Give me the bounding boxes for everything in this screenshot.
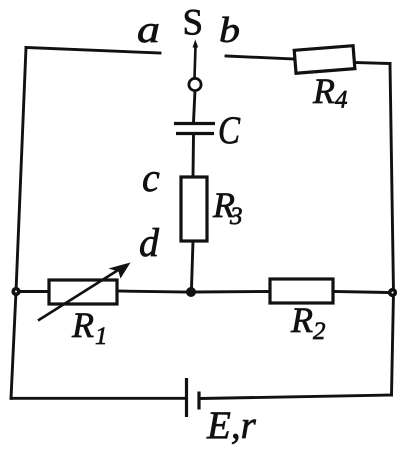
wire R1 to junction bbox=[117, 291, 187, 292]
svg-text:E,r: E,r bbox=[206, 404, 257, 447]
wire left node to R1 bbox=[20, 290, 49, 293]
wire junction to R2 bbox=[195, 290, 270, 293]
svg-text:S: S bbox=[183, 3, 204, 44]
wire a (top-left horizontal) bbox=[26, 48, 160, 54]
node (left terminal) bbox=[11, 287, 20, 296]
svg-text:c: c bbox=[142, 155, 160, 200]
wire bottom-left bbox=[11, 397, 184, 400]
resistor R4 bbox=[294, 46, 355, 74]
svg-text:R4: R4 bbox=[312, 71, 348, 114]
resistor R2 bbox=[270, 279, 333, 303]
wire R4 to right edge bbox=[354, 63, 390, 64]
wire R2 to right node bbox=[333, 292, 389, 293]
battery E,r bbox=[187, 378, 200, 417]
resistor R1 (rheostat) bbox=[38, 263, 131, 321]
resistor R3 bbox=[181, 177, 207, 241]
wire left edge bbox=[11, 48, 26, 399]
node (center junction) bbox=[186, 287, 196, 297]
svg-text:R3: R3 bbox=[212, 185, 243, 230]
wire switch to capacitor bbox=[194, 91, 196, 123]
wire bottom-right bbox=[201, 395, 392, 399]
wire R3 to junction bbox=[192, 241, 194, 288]
svg-text:R1: R1 bbox=[71, 305, 108, 350]
wire right edge bbox=[390, 64, 394, 396]
svg-text:b: b bbox=[219, 10, 240, 50]
svg-text:d: d bbox=[139, 220, 160, 265]
switch S bbox=[189, 40, 201, 91]
wire c (capacitor to R3) bbox=[192, 135, 195, 177]
node (right terminal) bbox=[388, 288, 397, 297]
wire b bbox=[226, 56, 294, 59]
svg-text:R2: R2 bbox=[290, 300, 326, 345]
svg-text:a: a bbox=[137, 9, 160, 51]
capacitor C bbox=[174, 124, 215, 134]
svg-text:C: C bbox=[218, 109, 241, 152]
